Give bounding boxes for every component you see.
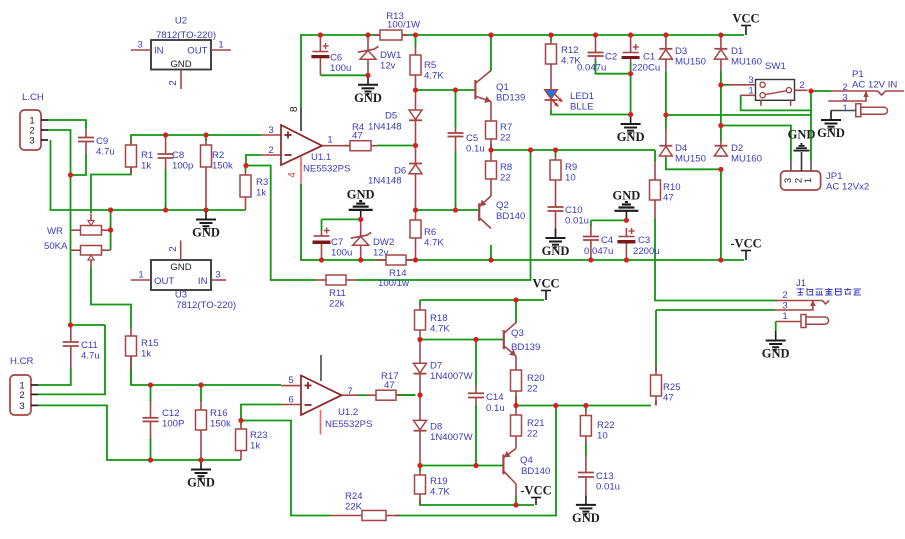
- diode D1: [720, 35, 722, 49]
- wire net R5 top: [415, 35, 417, 46]
- svg-text:MU150: MU150: [675, 154, 706, 165]
- node D3 top: [663, 32, 668, 37]
- wire net Q3 collector: [515, 300, 517, 323]
- svg-text:R24: R24: [345, 491, 363, 502]
- capacitor C6: [319, 36, 321, 52]
- svg-text:0.047u: 0.047u: [584, 246, 613, 257]
- node C2 top: [593, 32, 598, 37]
- svg-text:3: 3: [268, 125, 273, 136]
- svg-text:C14: C14: [486, 392, 504, 403]
- power -VCC top right: [745, 251, 747, 261]
- svg-text:C12: C12: [162, 408, 180, 419]
- power VCC top right: [745, 26, 747, 36]
- resistor R11: [316, 279, 326, 281]
- svg-text:150k: 150k: [212, 161, 233, 172]
- node C14 bottom node: [473, 463, 478, 468]
- wire net JP1 pin3 wire: [721, 126, 791, 162]
- svg-text:1N4148: 1N4148: [368, 122, 402, 133]
- wire net feedback upper: [246, 166, 316, 281]
- svg-text:22: 22: [527, 429, 538, 440]
- svg-text:AC 12V IN: AC 12V IN: [852, 80, 897, 91]
- wire net WR wiper to R1: [91, 167, 131, 213]
- wire net L.CH pin1: [48, 120, 86, 129]
- svg-text:8: 8: [289, 106, 300, 112]
- svg-text:4.7K: 4.7K: [424, 238, 444, 249]
- svg-text:5: 5: [288, 375, 293, 386]
- wire net LED cathode row: [551, 110, 631, 115]
- potentiometer 50KA: [81, 246, 102, 256]
- wire net C7/DW2 gnd row: [322, 218, 361, 220]
- capacitor C9: [85, 129, 87, 138]
- svg-text:1: 1: [138, 270, 143, 281]
- svg-text:U2: U2: [175, 16, 187, 27]
- node Q1 collector: [488, 32, 493, 37]
- wire U1.2 pin8 lead: [320, 355, 322, 381]
- svg-text:10: 10: [565, 173, 576, 184]
- svg-text:1: 1: [327, 135, 332, 146]
- svg-text:R2: R2: [212, 150, 224, 161]
- wire net C6/DW1 gnd row: [320, 74, 368, 76]
- resistor R19: [419, 470, 421, 475]
- svg-text:6: 6: [288, 395, 293, 406]
- svg-text:R7: R7: [500, 122, 512, 133]
- svg-text:2: 2: [268, 145, 273, 156]
- svg-text:4.7u: 4.7u: [96, 147, 115, 158]
- svg-text:NE5532PS: NE5532PS: [325, 419, 372, 430]
- svg-text:1: 1: [803, 178, 814, 183]
- node D8/R19 node: [417, 463, 422, 468]
- svg-text:J1: J1: [796, 278, 806, 289]
- svg-text:D5: D5: [385, 111, 397, 122]
- svg-text:0.01u: 0.01u: [565, 216, 589, 227]
- connector P1: [831, 90, 877, 92]
- wire net R4 to diodes: [377, 145, 416, 147]
- svg-text:R16: R16: [210, 408, 228, 419]
- resistor R1: [130, 140, 132, 145]
- wire net R19 top: [419, 466, 421, 472]
- wire net C5 bottom: [455, 151, 457, 210]
- svg-text:L.CH: L.CH: [22, 92, 44, 103]
- svg-text:3: 3: [783, 178, 794, 183]
- svg-text:GND: GND: [187, 476, 215, 490]
- svg-text:R20: R20: [527, 373, 545, 384]
- wire net R25 top to J1 pin3: [655, 310, 657, 371]
- svg-text:22K: 22K: [345, 502, 363, 513]
- wire U1.1 pin3 stub: [261, 134, 282, 136]
- ground below C1: [630, 115, 632, 125]
- svg-text:C4: C4: [601, 235, 614, 246]
- node C4 bottom: [588, 257, 593, 262]
- node Q3 collector node: [513, 297, 518, 302]
- svg-text:VCC: VCC: [532, 277, 559, 291]
- wire net -VCC row lower: [420, 499, 534, 505]
- wire net 50KA wiper to R15: [91, 267, 131, 328]
- diode D4: [665, 128, 667, 146]
- wire U1.1 pin1 stub: [322, 145, 344, 147]
- node DW1 top: [365, 32, 370, 37]
- svg-text:3: 3: [19, 401, 24, 412]
- zener DW1: [367, 35, 369, 50]
- ground below C10: [555, 229, 557, 239]
- svg-text:R23: R23: [250, 430, 268, 441]
- wire net R22 top: [585, 406, 587, 412]
- capacitor C2: [595, 36, 597, 53]
- wire net R22 bottom: [585, 443, 587, 456]
- svg-text:OUT: OUT: [187, 46, 207, 57]
- wire net U1.2 out row: [358, 394, 366, 396]
- svg-text:0.01u: 0.01u: [596, 482, 620, 493]
- power VCC lower: [545, 291, 547, 301]
- wire net U1.2 pin5 row: [131, 352, 281, 385]
- resistor R16: [200, 400, 202, 410]
- diode D2: [720, 141, 722, 146]
- transistor Q4: [502, 454, 504, 474]
- node D7/D8 node: [417, 392, 422, 397]
- resistor R10: [654, 162, 656, 180]
- svg-text:1: 1: [748, 86, 753, 97]
- ground above JP1 pin2: [794, 150, 810, 152]
- svg-text:2200u: 2200u: [633, 246, 660, 257]
- wire net C14 bottom: [475, 405, 477, 466]
- capacitor C10: [555, 202, 557, 207]
- wire net C9 bottom: [71, 154, 87, 175]
- svg-text:100P: 100P: [162, 419, 184, 430]
- wire net Q3 base row: [420, 339, 503, 341]
- wire U1.2 pin4 lead: [320, 410, 322, 435]
- wire D4 top lead: [665, 115, 667, 129]
- svg-text:4.7K: 4.7K: [430, 324, 450, 335]
- wire U1.2 pin7 stub: [340, 394, 359, 396]
- svg-text:D1: D1: [731, 46, 743, 57]
- wire net C12 bottom: [150, 439, 152, 460]
- diode D8: [419, 395, 421, 420]
- svg-text:12v: 12v: [380, 61, 396, 72]
- node R16 bottom: [198, 457, 203, 462]
- diode D5: [415, 90, 417, 110]
- svg-text:0.1u: 0.1u: [466, 144, 485, 155]
- node R16 top: [198, 382, 203, 387]
- node D5/D6 node: [413, 143, 418, 148]
- svg-text:7812(TO-220): 7812(TO-220): [176, 300, 236, 311]
- svg-text:GND: GND: [354, 91, 382, 105]
- svg-text:R21: R21: [527, 418, 545, 429]
- wire net Q1 collector: [490, 35, 492, 71]
- wire net J1 pin3 row: [656, 309, 775, 311]
- svg-text:GND: GND: [617, 130, 645, 144]
- wire net C4 top lead: [590, 220, 592, 226]
- svg-text:2: 2: [19, 390, 24, 401]
- node R9 top: [553, 147, 558, 152]
- svg-text:MU160: MU160: [731, 154, 762, 165]
- wire net D1-D2 mid: [720, 85, 722, 141]
- connector P? H.CR: [10, 375, 31, 415]
- svg-text:R6: R6: [424, 227, 436, 238]
- svg-text:0.047u: 0.047u: [577, 63, 606, 74]
- node fb join: [528, 147, 533, 152]
- svg-text:4: 4: [287, 172, 298, 178]
- svg-text:BD140: BD140: [496, 211, 525, 222]
- wire net D2 anode down: [720, 169, 722, 260]
- svg-text:22k: 22k: [329, 299, 345, 310]
- svg-text:3: 3: [748, 75, 753, 86]
- svg-text:1k: 1k: [250, 441, 260, 452]
- capacitor C13: [585, 455, 587, 473]
- wire net R18 top: [419, 300, 421, 305]
- svg-text:Q4: Q4: [520, 455, 533, 466]
- svg-text:GND: GND: [170, 59, 191, 70]
- connector J1: [775, 300, 822, 302]
- ground above C3: [625, 211, 627, 221]
- svg-text:AC 12Vx2: AC 12Vx2: [826, 182, 869, 193]
- svg-text:BD140: BD140: [521, 466, 550, 477]
- svg-text:4.7u: 4.7u: [81, 351, 100, 362]
- svg-text:22: 22: [527, 384, 538, 395]
- node WR right mid: [108, 227, 113, 232]
- resistor R20: [515, 356, 517, 370]
- ground above DW2: [360, 210, 362, 220]
- svg-text:10: 10: [597, 431, 608, 442]
- svg-text:GND: GND: [347, 187, 375, 201]
- diode D3: [665, 35, 667, 49]
- node R2 bottom: [203, 207, 208, 212]
- svg-text:R9: R9: [565, 162, 577, 173]
- svg-text:150k: 150k: [210, 419, 231, 430]
- resistor R25: [655, 366, 657, 376]
- svg-text:1k: 1k: [256, 188, 266, 199]
- svg-text:C5: C5: [466, 133, 478, 144]
- wire net C14 top: [475, 340, 477, 387]
- svg-text:7: 7: [347, 386, 352, 397]
- node C1 top: [628, 32, 633, 37]
- resistor R9: [555, 155, 557, 160]
- resistor R12: [550, 40, 552, 44]
- wire net R2 top: [205, 135, 207, 141]
- wire net SW1 pin1 loop: [741, 95, 811, 110]
- svg-text:4.7K: 4.7K: [430, 487, 450, 498]
- wire net H.CR pin1: [38, 368, 71, 385]
- svg-text:R8: R8: [500, 162, 512, 173]
- svg-text:100u: 100u: [331, 248, 352, 259]
- resistor R21: [515, 406, 517, 416]
- svg-text:NE5532PS: NE5532PS: [303, 164, 350, 175]
- power -VCC lower: [535, 498, 537, 506]
- wire net GND row lower: [38, 405, 241, 460]
- svg-text:R12: R12: [561, 45, 579, 56]
- svg-text:50KA: 50KA: [44, 241, 68, 252]
- wire net feedback lower left: [241, 421, 331, 516]
- svg-text:D2: D2: [731, 143, 743, 154]
- svg-text:D4: D4: [675, 143, 688, 154]
- ground below J1 pin1: [775, 331, 777, 341]
- ground below DW1: [367, 75, 369, 85]
- svg-text:GND: GND: [817, 126, 845, 140]
- wire net GND row left: [51, 140, 246, 210]
- svg-text:R10: R10: [663, 182, 681, 193]
- svg-text:-VCC: -VCC: [730, 237, 761, 251]
- wire net WR right legs: [110, 210, 112, 250]
- wire net C8 bottom: [165, 169, 167, 210]
- wire Q4 emitter lead: [515, 484, 517, 497]
- node D1 top: [718, 32, 723, 37]
- node U1.1 pin2 node: [243, 163, 248, 168]
- svg-text:GND: GND: [170, 262, 191, 273]
- wire net U1.1 pin3 row: [131, 135, 261, 143]
- svg-text:C13: C13: [596, 471, 614, 482]
- svg-text:GND: GND: [613, 188, 641, 202]
- svg-text:7812(TO-220): 7812(TO-220): [156, 30, 216, 41]
- node R5 bottom: [413, 87, 418, 92]
- node LED gnd: [628, 112, 633, 117]
- wire net R9 top: [555, 150, 557, 156]
- node C11 node: [68, 322, 73, 327]
- transistor Q3: [503, 330, 505, 349]
- svg-text:U3: U3: [175, 290, 187, 301]
- wire net R23 top: [240, 421, 242, 426]
- capacitor C1: [630, 36, 632, 53]
- wire net R output row: [516, 396, 651, 406]
- svg-text:3: 3: [29, 136, 34, 147]
- node R2 top: [203, 132, 208, 137]
- svg-text:3: 3: [842, 93, 847, 104]
- wire net R3 top: [245, 166, 247, 172]
- resistor R2: [205, 140, 207, 145]
- node DW2 bottom: [358, 257, 363, 262]
- wire net H.CR pin2: [38, 325, 105, 394]
- wire net -VCC row: [322, 259, 745, 261]
- ic U2 body: [151, 40, 211, 70]
- svg-text:47: 47: [384, 380, 395, 391]
- wire net R12 top: [550, 35, 552, 41]
- node C8 bottom: [163, 207, 168, 212]
- svg-text:U1.2: U1.2: [338, 407, 358, 418]
- svg-text:1: 1: [782, 311, 787, 322]
- wire net Q4 emitter: [515, 496, 517, 505]
- wire net D4-D2 anode row: [666, 157, 721, 169]
- wire net Q4 base row: [420, 465, 503, 467]
- node fb lower: [553, 403, 558, 408]
- wire net Q2 collector: [490, 245, 492, 260]
- node Q4 emitter node: [513, 502, 518, 507]
- wire net VCC row lower: [420, 299, 544, 301]
- svg-text:JP1: JP1: [826, 171, 843, 182]
- resistor R13: [374, 34, 380, 36]
- svg-text:GND: GND: [572, 511, 600, 525]
- resistor R24: [331, 515, 362, 517]
- capacitor C3: [625, 228, 627, 237]
- op-amp U1.1: [281, 125, 322, 165]
- svg-text:D3: D3: [675, 46, 687, 57]
- svg-text:2: 2: [842, 82, 847, 93]
- node D3/D4 node: [663, 112, 668, 117]
- svg-text:R1: R1: [141, 150, 153, 161]
- wire D1 to node: [720, 71, 722, 85]
- svg-text:1N4148: 1N4148: [368, 176, 402, 187]
- svg-text:IN: IN: [154, 46, 164, 57]
- svg-text:WR: WR: [47, 226, 63, 237]
- node C3 bottom: [624, 257, 629, 262]
- svg-text:47: 47: [663, 393, 674, 404]
- svg-text:C7: C7: [331, 237, 343, 248]
- wire net R11 to output: [356, 150, 531, 280]
- connector JP1: [781, 171, 821, 190]
- svg-text:BD139: BD139: [496, 93, 525, 104]
- wire net C7 top lead: [321, 219, 323, 231]
- wire net AC2 row: [666, 114, 811, 116]
- node R23 top node: [238, 418, 243, 423]
- svg-text:0.1u: 0.1u: [486, 403, 505, 414]
- wire U1.2 pin6 stub: [281, 404, 302, 406]
- node R5 top: [413, 32, 418, 37]
- svg-text:C8: C8: [172, 150, 184, 161]
- node C4/C3 top: [624, 218, 629, 223]
- svg-text:R25: R25: [663, 382, 681, 393]
- capacitor C4: [590, 225, 592, 237]
- svg-text:C9: C9: [96, 136, 108, 147]
- svg-text:47: 47: [663, 193, 674, 204]
- resistor R22: [585, 410, 587, 416]
- wire net C5 top: [455, 90, 457, 128]
- svg-text:100u: 100u: [330, 63, 351, 74]
- svg-text:BD139: BD139: [511, 342, 540, 353]
- wire U1.1 pin2 stub: [261, 154, 282, 156]
- svg-text:3: 3: [782, 301, 787, 312]
- wire net C4 top: [591, 219, 627, 221]
- svg-text:LED1: LED1: [570, 91, 594, 102]
- switch SW1: [756, 80, 795, 101]
- led LED1: [545, 90, 558, 99]
- wire net L output row: [491, 144, 655, 150]
- wire net R15 bottom: [130, 369, 132, 385]
- wire D3 to node: [665, 71, 667, 115]
- svg-text:C11: C11: [81, 340, 98, 351]
- svg-text:R3: R3: [256, 177, 268, 188]
- svg-text:C10: C10: [565, 205, 583, 216]
- wire net P1 pin2: [811, 90, 831, 92]
- svg-text:Q2: Q2: [496, 200, 509, 211]
- svg-text:2: 2: [799, 80, 804, 91]
- wire net D7-D8 node row: [395, 394, 416, 396]
- wire net R10 bottom to J1 pin2: [655, 218, 777, 301]
- svg-text:U1.1: U1.1: [311, 152, 331, 163]
- svg-text:MU160: MU160: [731, 57, 762, 68]
- resistor R3: [245, 170, 247, 175]
- svg-text:2: 2: [782, 290, 787, 301]
- svg-text:GND: GND: [788, 128, 816, 142]
- svg-text:Q3: Q3: [511, 328, 524, 339]
- svg-text:R15: R15: [141, 338, 159, 349]
- node C7 bottom: [319, 257, 324, 262]
- ic U3 body: [151, 260, 211, 290]
- node C5 top node: [453, 87, 458, 92]
- node R22 top: [583, 403, 588, 408]
- node D4/D2 node: [718, 167, 723, 172]
- svg-text:-VCC: -VCC: [520, 484, 551, 498]
- resistor R6: [415, 210, 417, 220]
- svg-text:MU150: MU150: [675, 57, 706, 68]
- svg-text:D7: D7: [430, 361, 442, 372]
- wire U1.1 pin4 lead: [300, 157, 302, 186]
- svg-text:3: 3: [215, 270, 220, 281]
- wire net R16 top: [200, 385, 202, 401]
- node C14 top node: [473, 337, 478, 342]
- svg-text:P1: P1: [852, 69, 864, 80]
- svg-text:R5: R5: [424, 60, 436, 71]
- node C9/pin2: [68, 172, 73, 177]
- resistor R8: [490, 150, 492, 161]
- svg-text:C1: C1: [643, 52, 655, 63]
- wire net AC2 vertical: [810, 91, 812, 161]
- zener DW2: [360, 219, 362, 236]
